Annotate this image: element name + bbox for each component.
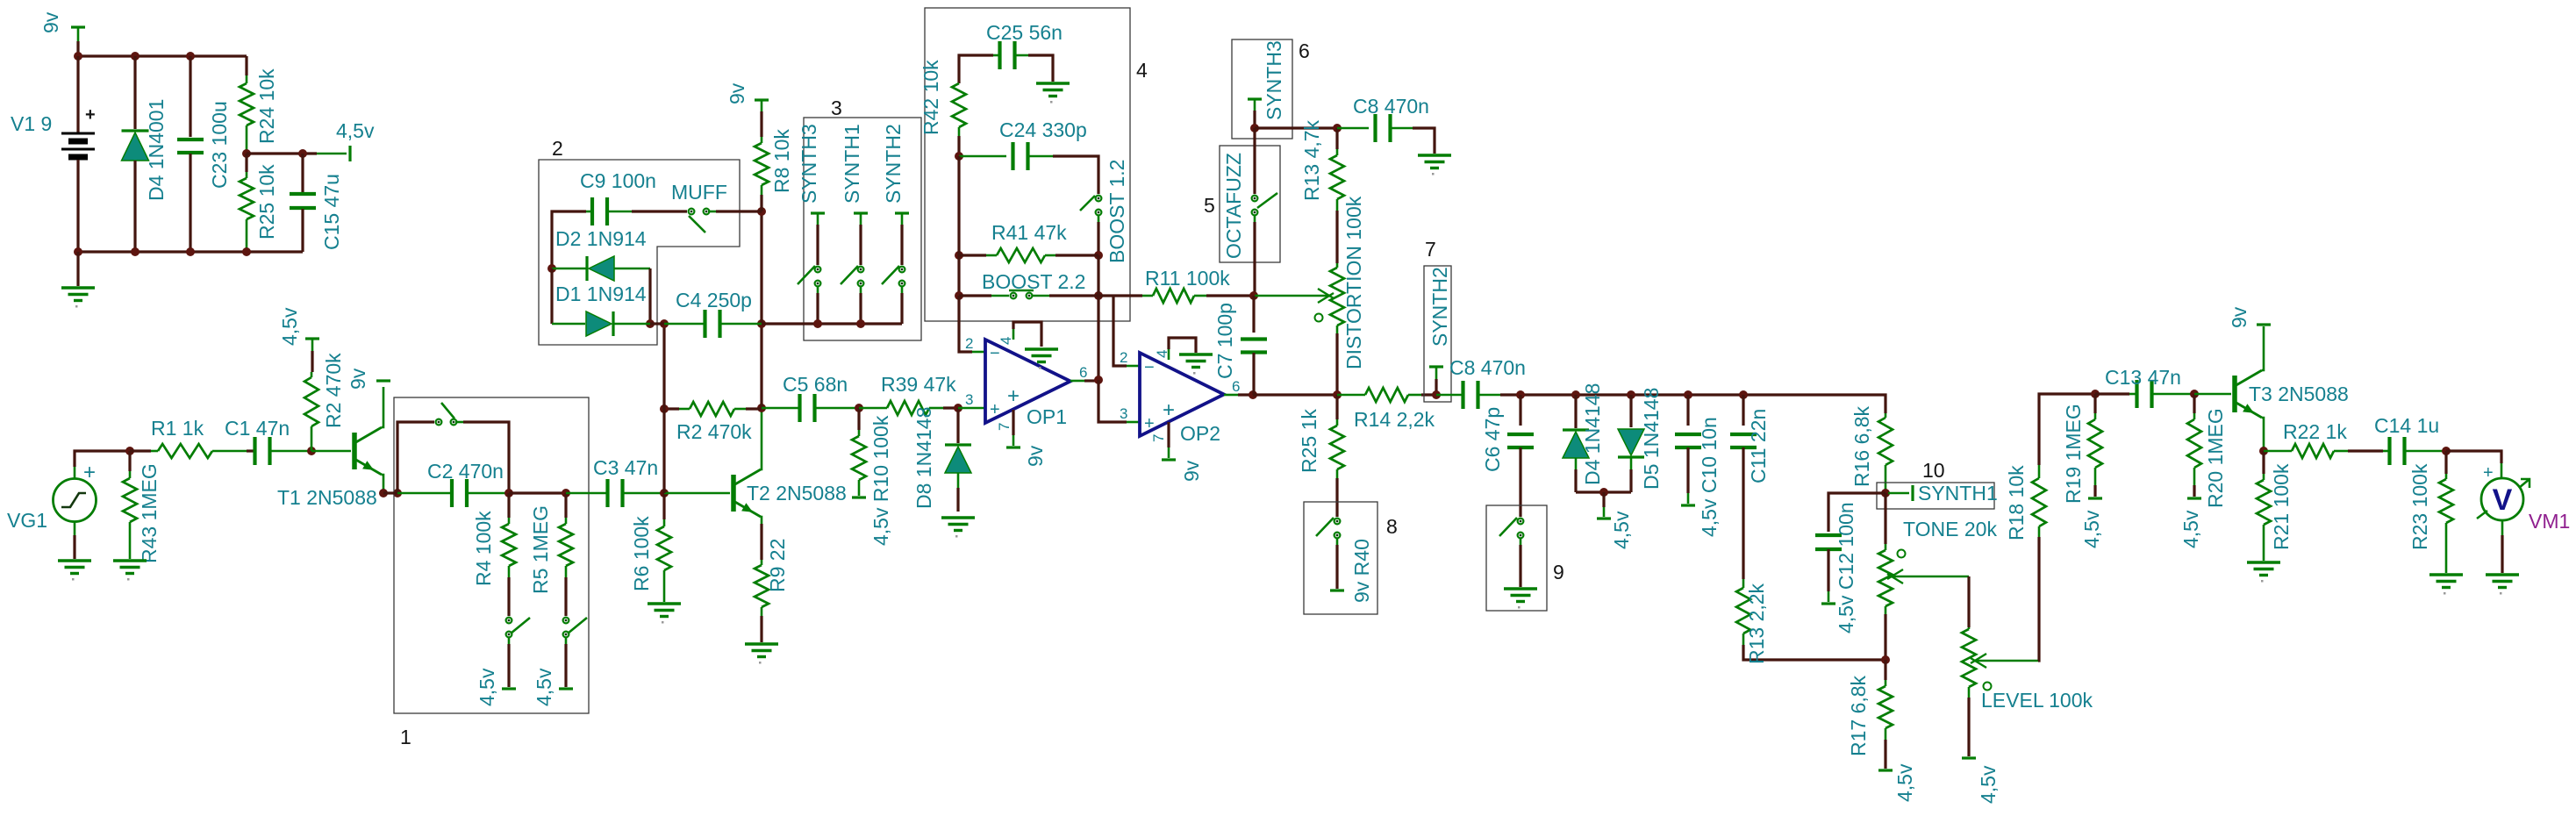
- wire T3 base lead: [2194, 393, 2231, 396]
- wire right rail to OP1 out: [1097, 296, 1099, 380]
- svg-text:TONE 20k: TONE 20k: [1903, 518, 1997, 540]
- switch (R4 to 4,5v): [506, 618, 512, 624]
- wire OP1 output: [1070, 380, 1084, 383]
- capacitor C24 330p: [959, 155, 1006, 158]
- switch (R40): [1335, 519, 1341, 525]
- svg-text:D5 1N4148: D5 1N4148: [1640, 388, 1663, 490]
- box 6 outline: [1232, 39, 1292, 139]
- resistor R6 100k: [662, 493, 665, 519]
- svg-text:R21 100k: R21 100k: [2270, 463, 2293, 550]
- wire BOOST1.2 to R41 line: [1098, 215, 1100, 222]
- node R8/MUFF junction: [757, 207, 766, 216]
- svg-text:R25 10k: R25 10k: [255, 164, 278, 240]
- node D1 right junction: [646, 319, 655, 328]
- svg-text:7: 7: [1425, 238, 1436, 261]
- ground (box9): [1504, 589, 1537, 602]
- wire T2 collector rail: [761, 408, 762, 469]
- capacitor C4 250p: [664, 323, 705, 326]
- wire SYNTH1 to bottom rail: [860, 286, 862, 293]
- wire MUFF to R8 node: [708, 211, 716, 213]
- wire T1 collector to 9v: [382, 387, 383, 427]
- node R17 junction: [1881, 655, 1890, 664]
- wire OP2 pin4 to ground: [1168, 349, 1170, 360]
- resistor R16 6,8k: [1885, 413, 1887, 418]
- box 2 outline: [539, 160, 740, 345]
- svg-text:9v: 9v: [2228, 306, 2250, 328]
- svg-text:C24 330p: C24 330p: [999, 118, 1087, 141]
- capacitor C1 47n: [247, 449, 254, 452]
- terminal 4,5v (C12): [1821, 602, 1835, 605]
- node R5 junction: [562, 489, 570, 497]
- resistor R25 10k: [245, 154, 247, 172]
- resistor R2 470k (vertical): [311, 351, 313, 372]
- resistor R39 47k: [859, 407, 887, 410]
- wire battery top lead: [76, 56, 79, 132]
- svg-text:C14 1u: C14 1u: [2374, 414, 2439, 437]
- svg-text:4,5v: 4,5v: [1893, 763, 1916, 802]
- capacitor C25 56n: [959, 55, 993, 83]
- svg-text:R6 100k: R6 100k: [630, 516, 653, 591]
- svg-text:SYNTH1: SYNTH1: [841, 124, 863, 204]
- wire divider to 4.5v terminal: [247, 152, 317, 154]
- svg-text:R17 6,8k: R17 6,8k: [1847, 675, 1870, 756]
- node top rail junctions: [74, 52, 82, 61]
- svg-text:C8 470n: C8 470n: [1353, 95, 1429, 118]
- capacitor C10 10n: [1686, 395, 1689, 426]
- svg-text:R18 10k: R18 10k: [2005, 465, 2028, 540]
- svg-text:8: 8: [1386, 515, 1398, 538]
- diode D4 1N4001: [133, 56, 136, 129]
- svg-text:7: 7: [996, 423, 1013, 431]
- terminal SYNTH1 (box10): [1888, 492, 1909, 495]
- resistor R42 10k: [952, 83, 966, 127]
- wire battery bottom lead: [76, 160, 79, 252]
- op-amp OP1: [985, 340, 1070, 423]
- diode D4 1N4148 (clip): [1574, 395, 1577, 428]
- wire OCTAFUZZ to R11 node: [1254, 215, 1256, 222]
- resistor R23 100k: [2444, 451, 2447, 474]
- svg-text:C5 68n: C5 68n: [783, 373, 848, 396]
- wire SYNTH3 to node: [1253, 111, 1256, 128]
- switch MUFF: [689, 209, 695, 215]
- terminal 4,5v (R19): [2088, 497, 2102, 499]
- wire clip diodes rail: [1576, 490, 1631, 493]
- node T3 emitter junction: [2259, 447, 2268, 455]
- box 8 outline: [1304, 502, 1377, 614]
- svg-text:R23 100k: R23 100k: [2408, 463, 2431, 550]
- wire to VM1: [2446, 451, 2501, 463]
- wire collector rail top: [760, 211, 762, 324]
- capacitor C8 470n (top): [1337, 127, 1369, 130]
- svg-text:R24 10k: R24 10k: [255, 68, 278, 144]
- terminal 9v (OP1): [1006, 446, 1020, 448]
- svg-text:R5 1MEG: R5 1MEG: [529, 505, 552, 594]
- switch (box9): [1518, 519, 1524, 525]
- svg-text:C23 100u: C23 100u: [208, 101, 231, 189]
- capacitor C14 1u: [2383, 450, 2390, 453]
- svg-text:R13 4,7k: R13 4,7k: [1300, 119, 1323, 201]
- resistor R25 1k: [1335, 395, 1338, 419]
- wire SYNTH3 node to R13 top: [1255, 126, 1337, 129]
- resistor R22 1k: [2264, 450, 2292, 453]
- source VG1: [54, 479, 97, 522]
- potentiometer TONE 20k: [1884, 493, 1886, 544]
- voltmeter VM1: [2481, 478, 2523, 520]
- svg-text:10: 10: [1922, 459, 1945, 482]
- svg-text:T3 2N5088: T3 2N5088: [2249, 383, 2349, 405]
- svg-text:R11 100k: R11 100k: [1145, 267, 1230, 290]
- capacitor C5 68n: [762, 407, 800, 410]
- node R2h left junction: [660, 404, 669, 413]
- svg-text:+: +: [990, 400, 1000, 419]
- svg-text:6: 6: [1079, 364, 1087, 381]
- resistor R21 100k: [2262, 451, 2265, 474]
- svg-text:SYNTH3: SYNTH3: [798, 124, 820, 204]
- potentiometer DISTORTION 100k: [1336, 263, 1339, 268]
- ground (R21): [2247, 562, 2280, 576]
- svg-text:3: 3: [831, 97, 842, 119]
- resistor R13 4,7k: [1335, 128, 1338, 149]
- wire SYNTH1 node to C12: [1828, 493, 1885, 532]
- svg-text:OP1: OP1: [1027, 405, 1067, 428]
- wire OP1 pin7 to 9v: [1012, 410, 1014, 435]
- capacitor C7 100p: [1252, 296, 1255, 333]
- resistor R17 6,8k: [1884, 660, 1886, 680]
- node BOOST2.2 junctions: [955, 291, 963, 300]
- svg-text:9v: 9v: [1024, 445, 1047, 467]
- node R11/C7 junction: [1249, 291, 1258, 300]
- wire base node riser: [662, 324, 665, 493]
- wire VM1 to ground: [2501, 520, 2504, 535]
- resistor R4 100k: [507, 493, 510, 518]
- svg-text:OP2: OP2: [1180, 422, 1220, 445]
- svg-text:C25 56n: C25 56n: [986, 21, 1063, 44]
- wire T2 base lead: [664, 492, 730, 495]
- resistor R43 1MEG: [128, 451, 131, 471]
- ground (VM1): [2486, 575, 2519, 588]
- terminal 4,5v (R17): [1878, 769, 1893, 771]
- svg-text:3: 3: [965, 391, 973, 408]
- node R10 junction: [855, 404, 863, 412]
- svg-text:C8 470n: C8 470n: [1449, 356, 1526, 379]
- wire OP1 pin4 to ground: [1013, 329, 1015, 340]
- svg-text:4,5v: 4,5v: [1610, 511, 1633, 549]
- svg-text:9: 9: [1553, 561, 1564, 583]
- svg-text:−: −: [990, 344, 1000, 363]
- resistor R20 1MEG: [2193, 394, 2195, 413]
- svg-text:9v: 9v: [39, 11, 62, 33]
- svg-text:4,5v C10 10n: 4,5v C10 10n: [1698, 417, 1721, 537]
- diode D5 1N4148 (clip): [1629, 395, 1632, 427]
- svg-text:DISTORTION 100k: DISTORTION 100k: [1342, 196, 1365, 369]
- svg-text:+: +: [83, 461, 96, 484]
- node chain junctions: [1516, 390, 1525, 399]
- wire left rail to OP1 pin2: [959, 296, 972, 352]
- ground (D8): [941, 518, 975, 531]
- capacitor C9 100n: [552, 211, 586, 268]
- svg-text:SYNTH3: SYNTH3: [1263, 40, 1285, 120]
- ground (VG1): [58, 561, 91, 574]
- box 7 outline: [1424, 266, 1451, 402]
- svg-text:R13 2,2k: R13 2,2k: [1745, 583, 1768, 664]
- node SYNTH1 junction: [1881, 489, 1890, 497]
- svg-text:R39 47k: R39 47k: [881, 373, 956, 396]
- svg-text:+: +: [2483, 463, 2494, 483]
- capacitor C11 22n: [1742, 395, 1744, 426]
- svg-text:R25 1k: R25 1k: [1298, 409, 1320, 473]
- svg-text:+: +: [1007, 384, 1020, 408]
- node D1/C4 junction: [660, 319, 669, 328]
- svg-text:D4 1N4001: D4 1N4001: [145, 99, 168, 201]
- svg-text:4,5v C12 100n: 4,5v C12 100n: [1835, 502, 1857, 633]
- node collector/C5 junction: [757, 404, 766, 412]
- wire T1 emitter: [382, 475, 383, 493]
- op-amp OP2: [1140, 353, 1224, 436]
- resistor R10 100k: [857, 408, 860, 430]
- resistor R14 2,2k: [1337, 394, 1365, 397]
- terminal 4,5v (C10): [1681, 504, 1695, 506]
- terminal SYNTH1 (box3): [854, 211, 868, 214]
- ground (R9): [745, 644, 778, 657]
- ground (power): [61, 288, 95, 301]
- svg-text:R4 100k: R4 100k: [472, 511, 495, 586]
- resistor R5 1MEG: [564, 493, 567, 518]
- terminal 4,5v (R10): [852, 496, 866, 498]
- resistor R41 47k: [959, 254, 986, 256]
- svg-text:C4 250p: C4 250p: [676, 289, 752, 311]
- wire bottom rail: [78, 250, 303, 253]
- resistor R8 10k: [755, 98, 769, 101]
- potentiometer LEVEL 100k: [1968, 627, 1971, 629]
- resistor R18 10k: [2038, 526, 2041, 537]
- terminal SYNTH2 (box7): [1429, 365, 1443, 368]
- battery V1 9: [61, 133, 95, 157]
- switch BOOST 1.2: [1096, 196, 1102, 202]
- node clip rail junction: [1599, 488, 1608, 497]
- svg-text:R19 1MEG: R19 1MEG: [2062, 404, 2085, 504]
- ground (OP1 pin4): [1025, 349, 1058, 362]
- svg-text:SYNTH2: SYNTH2: [882, 124, 905, 204]
- node R23 junction: [2442, 447, 2451, 455]
- node T1 base junction: [307, 447, 316, 455]
- svg-text:BOOST 1.2: BOOST 1.2: [1106, 160, 1128, 263]
- node R19 junction: [2091, 390, 2100, 398]
- wiper TONE: [1891, 576, 1969, 578]
- svg-text:R1 1k: R1 1k: [151, 417, 204, 440]
- svg-text:R16 6,8k: R16 6,8k: [1850, 405, 1873, 487]
- wire OP2 out line: [1253, 393, 1337, 396]
- svg-text:R2 470k: R2 470k: [676, 420, 752, 443]
- svg-text:4,5v: 4,5v: [278, 307, 301, 346]
- terminal 9v (R40): [1330, 589, 1344, 591]
- svg-text:C11 22n: C11 22n: [1747, 409, 1770, 483]
- wire T2 emitter: [761, 517, 762, 524]
- wire SYNTH2 to bottom rail: [901, 286, 904, 293]
- wiper LEVEL: [1974, 660, 2038, 662]
- svg-text:V: V: [2493, 483, 2513, 517]
- capacitor C23 100u: [189, 56, 191, 137]
- switch BOOST 2.2 (closed): [959, 294, 991, 297]
- terminal 9v (T1): [376, 379, 390, 382]
- wire base lead T1: [311, 450, 351, 453]
- wire OP2 output: [1224, 394, 1238, 397]
- wire output chain line: [1521, 395, 1885, 413]
- svg-text:6: 6: [1299, 39, 1310, 62]
- svg-text:R20 1MEG: R20 1MEG: [2204, 408, 2227, 508]
- svg-text:7: 7: [1150, 434, 1167, 442]
- capacitor C6 47p: [1519, 395, 1521, 426]
- switch (SYNTH1): [858, 267, 864, 273]
- svg-text:4,5v: 4,5v: [1977, 765, 2000, 804]
- box 4 outline: [925, 8, 1130, 321]
- node R20 junction: [2190, 390, 2199, 398]
- wire T3 emitter: [2262, 418, 2264, 451]
- node DISTORTION bottom junction: [1333, 390, 1342, 399]
- svg-text:+: +: [1163, 398, 1175, 422]
- terminal SYNTH2 (box3): [895, 211, 909, 214]
- svg-text:T2 2N5088: T2 2N5088: [747, 482, 847, 505]
- svg-text:C2 470n: C2 470n: [427, 460, 504, 483]
- resistor R11 100k: [1142, 295, 1153, 297]
- wire box1 riser: [383, 491, 397, 494]
- wire R11 tee to OP2 pin2: [1113, 296, 1127, 366]
- node 4.5v divider junction: [242, 149, 251, 158]
- svg-text:R41 47k: R41 47k: [991, 221, 1067, 244]
- node SYNTH2 junction: [1432, 390, 1441, 399]
- svg-text:4: 4: [998, 337, 1014, 345]
- node T1 emitter junctions: [379, 489, 388, 497]
- switch OCTAFUZZ: [1253, 128, 1256, 194]
- svg-text:D4 1N4148: D4 1N4148: [1581, 383, 1604, 485]
- svg-text:D8 1N4148: D8 1N4148: [912, 407, 935, 509]
- wire T3 collector to 9v: [2262, 326, 2264, 370]
- svg-text:C1 47n: C1 47n: [225, 417, 290, 440]
- resistor R19 1MEG: [2093, 394, 2096, 413]
- terminal SYNTH3 (box6): [1248, 97, 1262, 100]
- svg-text:5: 5: [1204, 194, 1215, 217]
- capacitor C3 47n: [566, 492, 608, 495]
- wire R40 switch to 9v terminal: [1336, 538, 1339, 545]
- svg-text:SYNTH2: SYNTH2: [1428, 267, 1451, 347]
- node T2 base junction: [660, 489, 669, 497]
- svg-text:SYNTH1: SYNTH1: [1918, 482, 1998, 505]
- resistor R1 1k: [130, 449, 151, 452]
- svg-text:C15 47u: C15 47u: [320, 174, 343, 250]
- terminal 4,5v (R4): [502, 687, 516, 690]
- ground (R6): [648, 604, 681, 617]
- svg-text:4,5v: 4,5v: [476, 668, 498, 706]
- box 10 outline: [1877, 483, 1994, 509]
- wire rail BOOST to R41 vertical: [1097, 255, 1099, 296]
- wire switch to C2 right node: [455, 421, 463, 424]
- svg-text:R42 10k: R42 10k: [919, 60, 942, 135]
- node R13 4,7k top junction: [1333, 124, 1342, 132]
- svg-text:C9 100n: C9 100n: [580, 169, 656, 192]
- svg-text:2: 2: [965, 335, 973, 352]
- svg-text:R2 470k: R2 470k: [322, 353, 345, 428]
- wire C2-C3 segment: [509, 491, 566, 494]
- wire pin3 stub OP1: [958, 407, 985, 410]
- wiper DISTORTION: [1255, 295, 1330, 297]
- resistor R13 2,2k: [1742, 579, 1745, 588]
- transistor T2 2N5088: [733, 469, 761, 517]
- node box3 rail junctions: [813, 319, 822, 328]
- wire top rail: [78, 54, 247, 57]
- svg-text:D1 1N914: D1 1N914: [555, 283, 647, 305]
- diode D2 1N914: [552, 268, 587, 270]
- svg-text:D2 1N914: D2 1N914: [555, 227, 647, 250]
- node input junction: [125, 447, 134, 455]
- capacitor C13 47n: [2095, 392, 2129, 395]
- svg-text:+: +: [85, 105, 96, 125]
- terminal 4,5v (LEVEL): [1962, 756, 1976, 759]
- svg-text:2: 2: [1120, 349, 1127, 366]
- svg-text:LEVEL 100k: LEVEL 100k: [1981, 689, 2093, 712]
- svg-text:6: 6: [1232, 378, 1240, 395]
- svg-text:C3 47n: C3 47n: [593, 456, 658, 479]
- wire R5 switch to terminal: [565, 637, 568, 644]
- node SYNTH3/R13 junction: [1250, 124, 1259, 132]
- terminal 9v (T3): [2257, 323, 2271, 326]
- ground (R43): [113, 561, 147, 574]
- wire OP1 out to OP2 pin3: [1098, 380, 1127, 422]
- resistor R2 470k (horizontal): [664, 407, 679, 410]
- wire box9 switch to ground: [1520, 538, 1522, 545]
- svg-text:R9 22: R9 22: [766, 539, 789, 592]
- capacitor C12 100n: [1815, 533, 1842, 537]
- wire D2 right to D1 line: [648, 268, 651, 324]
- box 1 outline: [394, 397, 589, 713]
- ground (C25): [1036, 83, 1070, 97]
- svg-text:4,5v: 4,5v: [2179, 510, 2202, 548]
- svg-text:9v: 9v: [1180, 460, 1203, 482]
- ground (R23): [2429, 575, 2463, 588]
- svg-text:4,5v R10 100k: 4,5v R10 100k: [869, 415, 892, 546]
- terminal 4,5v (R5): [559, 687, 573, 690]
- svg-text:2: 2: [552, 137, 563, 160]
- wire 9v to top rail: [76, 41, 79, 56]
- terminal 4,5v (divider): [348, 146, 351, 161]
- svg-text:9v R40: 9v R40: [1350, 539, 1373, 603]
- wire SYNTH3 to bottom rail: [817, 286, 819, 293]
- wire D1 line to C4: [650, 322, 664, 325]
- svg-text:T1 2N5088: T1 2N5088: [277, 486, 377, 509]
- node C15 junction: [298, 149, 307, 158]
- svg-text:4: 4: [1136, 59, 1148, 82]
- svg-text:MUFF: MUFF: [671, 181, 727, 204]
- wire box3 bottom rail: [762, 322, 902, 325]
- diode D8 1N4148: [956, 408, 959, 443]
- resistor R9 22: [761, 560, 763, 565]
- node OP1 output junction: [1094, 376, 1103, 384]
- svg-text:4,5v: 4,5v: [533, 668, 555, 706]
- transistor T1 2N5088: [354, 427, 382, 475]
- wire SYNTH3 column: [816, 225, 819, 265]
- capacitor C15 47u: [301, 154, 304, 193]
- wire SYNTH1 column: [859, 225, 862, 265]
- wire LEVEL wiper to R18: [2038, 537, 2039, 661]
- box 5 outline: [1220, 146, 1280, 262]
- node D8 junction: [954, 404, 962, 412]
- svg-text:9v: 9v: [347, 368, 369, 390]
- box 3 outline: [804, 118, 921, 340]
- resistor R24 10k: [245, 56, 247, 75]
- terminal 4,5v (R2): [305, 337, 319, 340]
- node OP2 output junction: [1249, 390, 1257, 399]
- ground (C8 top): [1418, 155, 1451, 168]
- svg-text:R43 1MEG: R43 1MEG: [138, 463, 161, 563]
- wire SYNTH2 column: [900, 225, 903, 265]
